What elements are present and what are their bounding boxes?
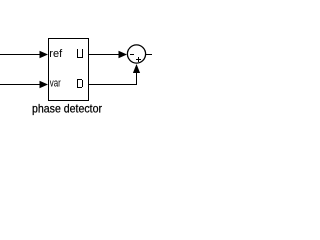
- svg-text:var: var: [50, 78, 61, 90]
- svg-text:phase detector: phase detector: [32, 102, 102, 116]
- svg-text:ref: ref: [49, 48, 63, 60]
